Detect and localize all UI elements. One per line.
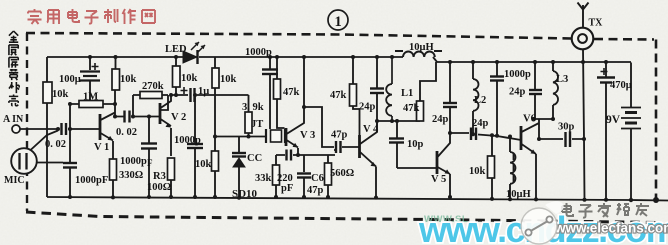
svg-text:560Ω: 560Ω [330, 168, 354, 179]
svg-text:3. 9k: 3. 9k [242, 102, 264, 113]
svg-text:L2: L2 [474, 95, 486, 106]
svg-text:10k: 10k [195, 159, 212, 170]
svg-text:A IN: A IN [3, 114, 24, 125]
svg-text:1μ: 1μ [198, 86, 209, 97]
svg-text:24p: 24p [472, 118, 489, 129]
svg-text:10k: 10k [120, 74, 137, 85]
svg-text:SD10: SD10 [232, 188, 258, 200]
svg-text:1: 1 [335, 14, 342, 30]
svg-text:10k: 10k [181, 73, 198, 84]
svg-text:100Ω: 100Ω [147, 182, 171, 193]
svg-text:24p: 24p [359, 102, 376, 113]
svg-text:L1: L1 [401, 88, 413, 99]
svg-text:JT: JT [251, 119, 263, 130]
svg-text:47k: 47k [283, 87, 300, 98]
svg-text:V 4: V 4 [363, 124, 379, 135]
svg-text:24p: 24p [432, 114, 449, 125]
svg-text:V6: V6 [523, 114, 536, 125]
svg-text:10p: 10p [407, 139, 424, 150]
svg-text:47p: 47p [307, 185, 324, 196]
svg-text:CC: CC [247, 153, 262, 164]
svg-text:V 1: V 1 [94, 142, 109, 153]
svg-text:10μH: 10μH [409, 42, 434, 53]
svg-text:10k: 10k [52, 89, 69, 100]
svg-text:LED: LED [165, 44, 187, 55]
svg-text:1000p: 1000p [245, 47, 272, 58]
svg-text:24p: 24p [509, 87, 526, 98]
svg-text:1000p: 1000p [504, 69, 531, 80]
svg-text:47k: 47k [403, 103, 420, 114]
svg-text:1000p: 1000p [120, 156, 147, 167]
svg-text:C6: C6 [311, 173, 324, 184]
svg-text:pF: pF [281, 183, 293, 194]
svg-text:1000p: 1000p [174, 135, 201, 146]
svg-text:TX: TX [589, 18, 604, 29]
svg-text:470μ: 470μ [610, 80, 632, 91]
svg-text:10μH: 10μH [506, 189, 531, 200]
svg-text:10k: 10k [469, 166, 486, 177]
svg-text:F: F [147, 158, 153, 168]
svg-text:30p: 30p [558, 122, 575, 133]
svg-text:www.elecfans.com: www.elecfans.com [554, 221, 668, 236]
svg-text:330Ω: 330Ω [119, 170, 143, 181]
svg-text:10k: 10k [220, 74, 237, 85]
svg-text:V 2: V 2 [171, 112, 186, 123]
svg-text:47k: 47k [330, 90, 347, 101]
svg-text:0. 02: 0. 02 [116, 127, 137, 138]
svg-text:47p: 47p [331, 130, 348, 141]
svg-text:V 3: V 3 [300, 130, 315, 141]
svg-text:9V: 9V [606, 114, 621, 126]
svg-text:V 5: V 5 [431, 174, 446, 185]
svg-text:R3: R3 [153, 171, 166, 182]
svg-text:L3: L3 [556, 74, 568, 85]
svg-text:33k: 33k [255, 173, 272, 184]
svg-text:MIC: MIC [4, 175, 25, 186]
svg-text:1000pF: 1000pF [75, 175, 108, 186]
svg-text:1M: 1M [83, 92, 98, 103]
svg-text:270k: 270k [142, 81, 164, 92]
svg-text:0. 02: 0. 02 [45, 139, 66, 150]
svg-text:100μ: 100μ [59, 74, 81, 85]
